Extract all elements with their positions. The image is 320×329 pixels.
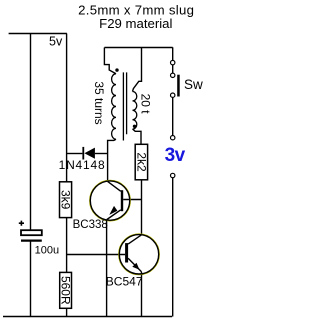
transistor Q1 BC338 emitter diagonal xyxy=(107,210,121,220)
switch Sw terminal 3 xyxy=(171,93,175,97)
resistor R2 2k2 xyxy=(135,144,147,180)
transistor Q1 BC338 emitter arrow xyxy=(109,206,117,215)
transistor Q1 BC338 circle xyxy=(90,180,130,220)
node ground bottom rail xyxy=(3,316,172,318)
diode D1 1N4148 triangle xyxy=(84,148,95,159)
svg-text:3k9: 3k9 xyxy=(59,190,73,210)
wire capacitor branch from 5v rail xyxy=(30,34,32,231)
node top horizontal wire to switch xyxy=(104,47,172,49)
wire BC338 base to 2k2 column node xyxy=(123,199,141,201)
wire diode anode side xyxy=(95,153,108,155)
wire switch to battery terminal xyxy=(172,97,174,135)
svg-text:Sw: Sw xyxy=(184,77,203,92)
wire BC338 emitter to ground rail xyxy=(106,220,108,317)
svg-text:35 turns: 35 turns xyxy=(92,81,106,124)
resistor R3 560R xyxy=(60,272,72,308)
wire primary top lead xyxy=(104,48,116,74)
wire 2k2 bottom to BC547 collector xyxy=(141,180,143,235)
capacitor C1 top plate xyxy=(21,230,42,235)
wire capacitor bottom to ground rail xyxy=(30,242,32,317)
svg-text:BC338: BC338 xyxy=(73,219,108,231)
transformer T1 secondary phase dot xyxy=(133,125,136,128)
wire secondary bottom lead to 2k2 xyxy=(133,129,142,144)
transistor Q2 BC547 base bar xyxy=(125,243,128,262)
svg-text:F29 material: F29 material xyxy=(99,16,172,31)
capacitor C1 bottom plate xyxy=(21,240,42,242)
wire battery negative terminal down to ground rail xyxy=(172,178,174,317)
transistor Q2 BC547 emitter arrow xyxy=(132,263,139,270)
capacitor C1 plus sign xyxy=(19,221,24,226)
wire diode junction down to BC338 collector xyxy=(107,154,109,182)
node 5v top rail xyxy=(9,33,67,35)
transistor Q2 BC547 emitter diagonal xyxy=(128,258,142,272)
transistor Q2 BC547 circle xyxy=(119,234,159,274)
svg-text:2k2: 2k2 xyxy=(134,152,148,172)
switch Sw terminal 1 xyxy=(171,60,175,64)
switch Sw terminal 2 xyxy=(171,73,175,77)
svg-text:20 t: 20 t xyxy=(139,94,153,115)
wire diode cathode side to left column xyxy=(67,153,83,155)
svg-text:3v: 3v xyxy=(165,145,186,166)
battery terminal bottom xyxy=(171,173,175,177)
transistor Q1 BC338 collector diagonal xyxy=(108,181,121,191)
transistor Q1 BC338 base bar xyxy=(121,190,123,211)
wire 560R bottom to ground rail xyxy=(66,308,68,316)
transformer T1 secondary winding 20 t xyxy=(133,92,137,130)
svg-text:100u: 100u xyxy=(35,245,59,257)
transformer T1 core xyxy=(123,72,126,140)
switch Sw actuator bar xyxy=(177,75,180,97)
svg-text:560R: 560R xyxy=(59,276,73,305)
wire switch terminal link xyxy=(172,65,174,73)
wire 3k9 bottom to 560R top xyxy=(66,218,68,273)
svg-text:BC547: BC547 xyxy=(106,275,143,289)
transformer T1 primary phase dot xyxy=(115,68,118,71)
svg-text:1N4148: 1N4148 xyxy=(59,158,106,172)
wire secondary top lead xyxy=(133,48,142,92)
wire BC547 emitter to ground rail xyxy=(141,272,143,317)
svg-text:5v: 5v xyxy=(49,35,63,49)
battery terminal top xyxy=(171,136,175,140)
wire primary bottom lead to diode junction xyxy=(108,139,116,153)
wire left column 5v rail down to diode junction and 3k9 xyxy=(66,34,68,182)
diode D1 1N4148 cathode bar xyxy=(82,147,84,160)
wire right rail top to switch xyxy=(172,47,174,60)
transistor Q2 BC547 collector diagonal xyxy=(128,235,141,244)
resistor R1 3k9 xyxy=(60,182,72,218)
wire BC547 base from resistor column junction xyxy=(67,254,126,256)
transformer T1 primary winding 35 turns xyxy=(112,74,116,140)
